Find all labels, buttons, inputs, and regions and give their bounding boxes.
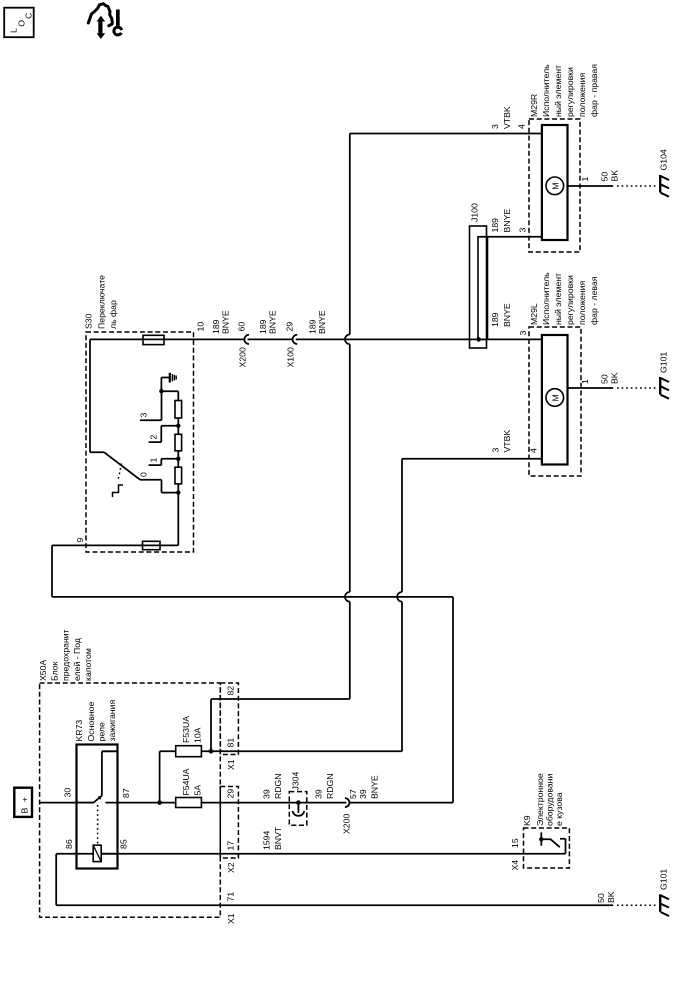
svg-text:39: 39 — [358, 789, 368, 799]
svg-text:X4: X4 — [510, 860, 520, 871]
svg-text:71: 71 — [226, 892, 236, 902]
svg-text:ный элемент: ный элемент — [553, 273, 563, 325]
svg-text:F53UA: F53UA — [181, 716, 191, 743]
svg-text:3: 3 — [139, 413, 149, 418]
svg-text:Переключате: Переключате — [97, 275, 107, 329]
svg-text:82: 82 — [226, 686, 236, 696]
svg-text:VTBK: VTBK — [502, 430, 512, 453]
svg-text:BK: BK — [610, 372, 620, 384]
svg-text:G104: G104 — [659, 149, 669, 170]
svg-text:50: 50 — [600, 374, 610, 384]
svg-text:X1: X1 — [226, 759, 236, 770]
svg-text:е кузова: е кузова — [554, 792, 564, 826]
svg-text:39: 39 — [262, 789, 272, 799]
svg-text:X200: X200 — [342, 814, 352, 834]
svg-text:10A: 10A — [193, 727, 203, 743]
svg-text:фар - правая: фар - правая — [589, 64, 599, 117]
svg-text:86: 86 — [64, 839, 74, 849]
svg-text:X1: X1 — [226, 913, 236, 924]
svg-text:J100: J100 — [470, 203, 480, 222]
svg-text:189: 189 — [211, 319, 221, 334]
svg-text:87: 87 — [121, 788, 131, 798]
svg-text:10: 10 — [196, 322, 206, 332]
svg-text:X2: X2 — [226, 862, 236, 873]
svg-text:VTBK: VTBK — [502, 106, 512, 129]
svg-text:X100: X100 — [286, 347, 296, 367]
svg-text:фар - левая: фар - левая — [589, 276, 599, 325]
svg-text:O: O — [17, 20, 27, 27]
svg-text:3: 3 — [518, 228, 528, 233]
svg-text:3: 3 — [518, 331, 528, 336]
svg-text:3: 3 — [491, 448, 501, 453]
svg-text:X200: X200 — [237, 347, 247, 367]
svg-text:Блок: Блок — [50, 661, 60, 681]
svg-text:регулировки: регулировки — [565, 67, 575, 117]
svg-text:предохранит: предохранит — [61, 629, 71, 681]
svg-text:RDGN: RDGN — [273, 773, 283, 799]
svg-text:KR73: KR73 — [74, 720, 84, 742]
svg-text:1594: 1594 — [262, 831, 272, 850]
svg-text:1: 1 — [580, 177, 590, 182]
svg-text:B +: B + — [20, 796, 30, 814]
svg-text:ль фар: ль фар — [108, 300, 118, 329]
svg-text:X50A: X50A — [38, 660, 48, 681]
svg-text:капотом: капотом — [83, 648, 93, 681]
svg-text:29: 29 — [226, 789, 236, 799]
svg-text:зажигания: зажигания — [107, 700, 117, 742]
svg-text:положения: положения — [577, 72, 587, 117]
svg-text:G101: G101 — [659, 869, 669, 890]
svg-text:189: 189 — [308, 319, 318, 334]
svg-text:BK: BK — [610, 170, 620, 182]
svg-text:17: 17 — [226, 841, 236, 851]
svg-text:BNYE: BNYE — [221, 310, 231, 334]
svg-text:G101: G101 — [659, 352, 669, 373]
svg-text:RDGN: RDGN — [325, 773, 335, 799]
svg-text:положения: положения — [577, 280, 587, 325]
svg-text:1: 1 — [149, 458, 159, 463]
svg-text:5A: 5A — [193, 785, 203, 796]
svg-text:Исполнитель: Исполнитель — [541, 272, 551, 325]
svg-text:85: 85 — [119, 839, 129, 849]
svg-text:2: 2 — [149, 435, 159, 440]
svg-text:M29L: M29L — [529, 303, 539, 325]
svg-text:L: L — [8, 28, 18, 33]
svg-text:BNYE: BNYE — [502, 209, 512, 233]
svg-text:0: 0 — [139, 472, 149, 477]
svg-text:J304: J304 — [291, 771, 301, 790]
svg-text:189: 189 — [490, 218, 500, 233]
svg-text:K9: K9 — [522, 815, 532, 826]
svg-text:M: M — [551, 183, 561, 190]
svg-text:57: 57 — [348, 789, 358, 799]
svg-text:15: 15 — [510, 838, 520, 848]
svg-text:9: 9 — [75, 538, 85, 543]
svg-text:реле: реле — [97, 722, 107, 741]
svg-text:BNYE: BNYE — [317, 310, 327, 334]
svg-text:30: 30 — [63, 788, 73, 798]
svg-text:BNYE: BNYE — [502, 303, 512, 327]
svg-text:4: 4 — [529, 448, 539, 453]
svg-text:S30: S30 — [84, 313, 94, 329]
svg-text:M29R: M29R — [529, 94, 539, 117]
svg-text:регулировки: регулировки — [565, 275, 575, 325]
svg-text:1: 1 — [580, 379, 590, 384]
svg-text:3: 3 — [490, 124, 500, 129]
svg-text:Электронное: Электронное — [535, 773, 545, 826]
svg-text:Исполнитель: Исполнитель — [541, 64, 551, 117]
svg-text:39: 39 — [314, 789, 324, 799]
svg-text:50: 50 — [600, 172, 610, 182]
svg-text:189: 189 — [490, 312, 500, 327]
svg-text:60: 60 — [237, 322, 247, 332]
svg-text:C: C — [23, 13, 33, 19]
svg-text:50: 50 — [596, 893, 606, 903]
svg-text:M: M — [551, 394, 561, 401]
svg-text:F54UA: F54UA — [181, 768, 191, 795]
svg-text:BK: BK — [606, 891, 616, 903]
svg-text:BNVT: BNVT — [273, 826, 283, 850]
svg-text:BNYE: BNYE — [268, 310, 278, 334]
svg-text:29: 29 — [285, 322, 295, 332]
svg-text:Основное: Основное — [86, 702, 96, 742]
svg-text:ный элемент: ный элемент — [553, 65, 563, 117]
svg-text:4: 4 — [517, 124, 527, 129]
svg-text:елей - Под: елей - Под — [72, 638, 82, 681]
svg-text:81: 81 — [226, 738, 236, 748]
svg-text:189: 189 — [258, 319, 268, 334]
svg-text:BNYE: BNYE — [370, 775, 380, 799]
svg-text:оборудовани: оборудовани — [545, 774, 555, 826]
